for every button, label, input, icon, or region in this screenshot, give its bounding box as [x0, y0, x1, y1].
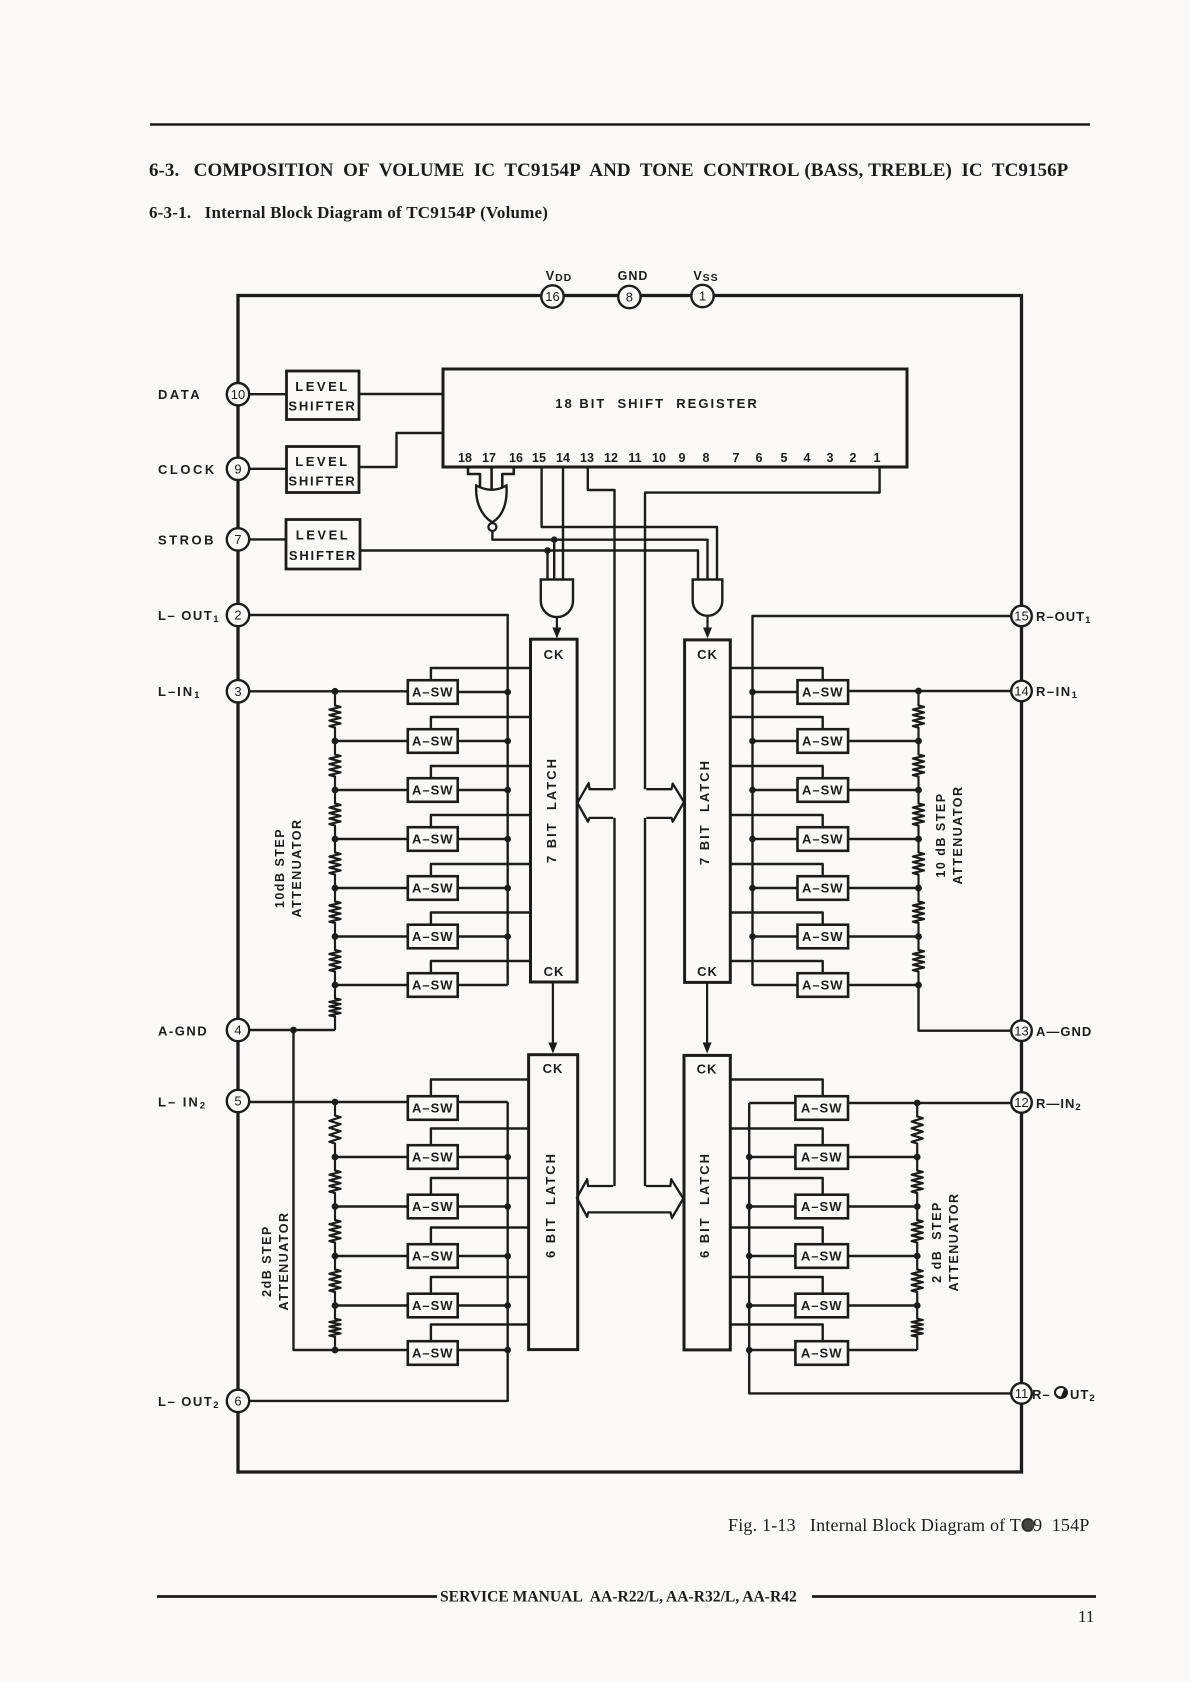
wire G1 output to AND gates (clock line)	[492, 531, 707, 579]
svg-text:9: 9	[234, 461, 241, 476]
junction tap 3 upper-right	[915, 836, 922, 843]
resistor R22 (2dB lower-right)	[912, 1207, 923, 1257]
wire STROB U3 to AND gates	[360, 551, 698, 580]
svg-text:4: 4	[804, 451, 811, 465]
wire shift register bit16 to gate G1	[502, 467, 514, 487]
level shifter U3 (STROB)	[286, 520, 360, 570]
junction tap 4 upper-right	[915, 885, 922, 892]
svg-text:A–SW: A–SW	[802, 881, 844, 896]
wire U6 control bit 7 to A-SW upper-right	[730, 961, 822, 973]
junction tap 3 lower-right	[914, 1253, 921, 1260]
svg-text:CK: CK	[543, 1061, 564, 1076]
A-SW switch lower-right 1	[795, 1096, 848, 1120]
A-SW switch upper-left 5	[408, 876, 458, 900]
resistor R11 (10dB upper-right)	[913, 839, 924, 888]
svg-text:12: 12	[604, 451, 618, 465]
wire A-SW upper-left 3 output to bus	[458, 789, 508, 791]
resistor R10 (10dB upper-right)	[913, 790, 924, 839]
svg-text:A–SW: A–SW	[412, 1150, 454, 1165]
wire U8 control bit 6 to A-SW lower-right	[730, 1325, 822, 1342]
wire U6 control bit 2 to A-SW upper-right	[730, 717, 822, 729]
svg-text:A—GND: A—GND	[1036, 1024, 1092, 1039]
svg-text:2dB STEP: 2dB STEP	[260, 1225, 274, 1297]
wire L-OUT1 pin2 to output bus	[249, 615, 508, 985]
svg-text:A–SW: A–SW	[412, 734, 454, 749]
junction tap 2 lower-left	[332, 1203, 339, 1210]
svg-text:A–SW: A–SW	[412, 832, 454, 847]
resistor R8 (10dB upper-right)	[913, 692, 924, 741]
svg-text:A–SW: A–SW	[802, 929, 844, 944]
resistor R24 (2dB lower-right)	[912, 1306, 923, 1351]
wire A-GND down to lower attenuator	[294, 1030, 408, 1350]
junction tap 5 upper-right	[915, 933, 922, 940]
svg-text:R–: R–	[1032, 1387, 1051, 1402]
wire G3 to right 7-bit latch CK	[703, 616, 712, 639]
wire A-SW lower-right 4 output to bus	[749, 1255, 795, 1257]
wire attenuator tap 4 to A-SW input (lower-right)	[848, 1304, 917, 1306]
svg-text:VSS: VSS	[693, 269, 718, 284]
wire node D1 lower segment	[613, 818, 615, 1186]
junction tap 5 upper-left	[332, 933, 339, 940]
wire R-OUT1 pin15 to output bus	[753, 616, 1011, 985]
resistor R4 (10dB upper-left)	[329, 839, 340, 888]
svg-text:A–SW: A–SW	[412, 783, 454, 798]
svg-text:6-3-1. Internal Block Diagra: 6-3-1. Internal Block Diagram of TC9154P…	[149, 203, 548, 222]
wire U5 control bit 7 to A-SW upper-left	[431, 961, 531, 973]
junction tap 2 upper-right	[915, 787, 922, 794]
wire L-IN1 pin3 to attenuator and A-SW	[249, 690, 408, 692]
footer rule and text	[157, 1589, 1096, 1606]
resistor R6 (10dB upper-left)	[329, 937, 340, 986]
AND gate G3 (right latch clock)	[693, 580, 723, 616]
svg-text:CK: CK	[544, 964, 565, 979]
wire U7 control bit 1 to A-SW lower-left	[431, 1080, 529, 1097]
wire attenuator tap 2 to A-SW input (upper-left)	[335, 789, 408, 791]
svg-text:16: 16	[509, 451, 523, 465]
svg-text:11: 11	[1015, 1386, 1029, 1401]
svg-text:5: 5	[234, 1094, 241, 1109]
wire U6 control bit 5 to A-SW upper-right	[730, 864, 822, 876]
svg-text:CK: CK	[544, 647, 565, 662]
wire U7 control bit 3 to A-SW lower-left	[431, 1178, 529, 1195]
wire U7 control bit 6 to A-SW lower-left	[431, 1325, 529, 1342]
svg-text:10dB STEP: 10dB STEP	[273, 828, 287, 908]
svg-text:2 dB STEP: 2 dB STEP	[930, 1201, 944, 1283]
svg-text:6 BIT LATCH: 6 BIT LATCH	[697, 1152, 712, 1258]
resistor R1 (10dB upper-left)	[329, 692, 340, 741]
wire U5 control bit 6 to A-SW upper-left	[431, 913, 531, 925]
svg-text:A–SW: A–SW	[801, 1249, 843, 1264]
data bus arrow lower (between 6-bit latches)	[577, 1179, 683, 1218]
svg-text:10: 10	[652, 451, 666, 465]
junction output bus lower-left 4	[504, 1253, 511, 1260]
junction R-IN1 at attenuator top	[915, 688, 922, 695]
svg-text:A–SW: A–SW	[801, 1199, 843, 1214]
svg-text:A–SW: A–SW	[802, 832, 844, 847]
svg-text:VDD: VDD	[546, 269, 573, 284]
wire attenuator bottom to A-SW lower-right	[848, 1349, 917, 1351]
wire shift register bit15 to G3	[542, 467, 717, 580]
junction output bus upper-left 6	[504, 933, 511, 940]
junction output bus lower-left 6	[504, 1347, 511, 1354]
left 6-bit latch U7	[529, 1055, 578, 1350]
wire attenuator tap 3 to A-SW input (lower-right)	[848, 1255, 917, 1257]
resistor R16 (2dB lower-left)	[329, 1157, 340, 1207]
wire clock line branch to G2	[553, 540, 555, 580]
wire A-SW upper-right 3 output to bus	[753, 789, 798, 791]
svg-text:1: 1	[874, 451, 881, 465]
wire A-SW upper-left 6 output to bus	[458, 935, 508, 937]
A-SW switch lower-left 3	[408, 1195, 458, 1219]
pin 1 VSS	[691, 285, 713, 307]
junction output bus upper-left 1	[504, 689, 511, 696]
wire U5 control bit 1 to A-SW upper-left	[431, 668, 531, 680]
svg-text:LEVEL: LEVEL	[295, 454, 349, 469]
junction R-IN2 at attenuator top	[914, 1100, 921, 1107]
junction tap 1 lower-right	[914, 1154, 921, 1161]
svg-text:Fig. 1-13 Internal Block Dia: Fig. 1-13 Internal Block Diagram of TC9 …	[728, 1515, 1090, 1535]
label R-OUT2	[1032, 1386, 1096, 1404]
wire U5 control bit 3 to A-SW upper-left	[431, 766, 531, 778]
wire U7 control bit 4 to A-SW lower-left	[431, 1228, 529, 1245]
resistor R9 (10dB upper-right)	[913, 741, 924, 790]
A-SW switch upper-right 6	[798, 925, 849, 949]
junction tap 3 lower-left	[332, 1253, 339, 1260]
AND gate G2 (left latch clock)	[541, 580, 573, 618]
svg-text:L– OUT1: L– OUT1	[158, 608, 220, 625]
wire U5 control bit 5 to A-SW upper-left	[431, 864, 531, 876]
junction attenuator bottom lower-left	[332, 1347, 339, 1354]
svg-text:16: 16	[545, 289, 559, 304]
pin 14 R-IN1	[1011, 681, 1032, 702]
junction L-IN1 at attenuator top	[332, 688, 339, 695]
svg-text:SHIFTER: SHIFTER	[289, 548, 357, 563]
svg-text:7: 7	[733, 451, 740, 465]
wire attenuator tap 5 to A-SW input (upper-left)	[335, 935, 408, 937]
svg-text:ATTENUATOR: ATTENUATOR	[951, 785, 965, 884]
junction output bus lower-right 6	[746, 1347, 753, 1354]
svg-text:15: 15	[532, 451, 546, 465]
svg-text:A–SW: A–SW	[412, 929, 454, 944]
svg-text:A–SW: A–SW	[801, 1346, 843, 1361]
svg-text:R–OUT1: R–OUT1	[1036, 609, 1091, 626]
wire attenuator tap 3 to A-SW input (upper-left)	[335, 838, 408, 840]
level shifter U1 (DATA)	[287, 371, 360, 420]
wire U7 control bit 5 to A-SW lower-left	[431, 1277, 529, 1294]
wire shift register bit14 to G2	[562, 467, 564, 580]
svg-text:A–SW: A–SW	[801, 1150, 843, 1165]
wire A-SW lower-right 6 output to bus	[749, 1349, 795, 1351]
wire shift register bit13 down to latches (node D1)	[588, 467, 615, 789]
resistor R23 (2dB lower-right)	[912, 1256, 923, 1306]
svg-text:ATTENUATOR: ATTENUATOR	[947, 1192, 961, 1291]
18 bit shift register U4	[443, 369, 907, 467]
junction on STROB line	[544, 547, 551, 554]
resistor R21 (2dB lower-right)	[912, 1157, 923, 1207]
A-SW switch lower-right 5	[795, 1294, 848, 1318]
svg-text:GND: GND	[618, 269, 649, 283]
wire attenuator tap 1 to A-SW input (upper-left)	[335, 740, 408, 742]
wire node D2 lower segment	[644, 818, 646, 1186]
A-SW switch lower-right 4	[795, 1244, 848, 1268]
junction output bus lower-left 5	[504, 1302, 511, 1309]
wire attenuator tap 2 to A-SW input (upper-right)	[848, 789, 918, 791]
svg-text:A–SW: A–SW	[412, 685, 454, 700]
wire A-SW upper-right 5 output to bus	[753, 887, 798, 889]
vertical label 10dB STEP ATTENUATOR left	[273, 818, 304, 917]
wire A-SW upper-left 5 output to bus	[458, 887, 508, 889]
A-SW switch upper-left 6	[408, 925, 458, 949]
wire shift register bit17 to gate G1	[490, 467, 493, 493]
wire attenuator tap 4 to A-SW input (upper-left)	[335, 887, 408, 889]
resistor R12 (10dB upper-right)	[913, 888, 924, 937]
page top rule	[150, 123, 1090, 126]
junction on clock line	[551, 536, 558, 543]
svg-text:CK: CK	[697, 1062, 718, 1077]
IC boundary box	[238, 296, 1022, 1473]
resistor R2 (10dB upper-left)	[329, 741, 340, 790]
svg-text:12: 12	[1014, 1095, 1028, 1110]
svg-text:6: 6	[234, 1394, 241, 1409]
level shifter U2 (CLOCK)	[287, 447, 360, 493]
junction output bus lower-right 5	[746, 1302, 753, 1309]
A-SW switch lower-right 3	[795, 1195, 848, 1219]
junction tap 6 upper-right	[915, 982, 922, 989]
resistor R5 (10dB upper-left)	[329, 888, 340, 937]
svg-text:7 BIT LATCH: 7 BIT LATCH	[697, 759, 712, 865]
svg-text:L– IN2: L– IN2	[158, 1095, 207, 1112]
resistor R3 (10dB upper-left)	[329, 790, 340, 839]
A-SW switch upper-left 3	[408, 778, 458, 802]
pin 12 R-IN2	[1011, 1092, 1032, 1113]
junction tap 6 upper-left	[332, 982, 339, 989]
A-SW switch lower-right 2	[795, 1145, 848, 1169]
A-SW switch lower-left 5	[408, 1294, 458, 1318]
pin 7 STROB	[227, 528, 249, 550]
resistor R15 (2dB lower-left)	[329, 1102, 340, 1157]
wire A-SW lower-right 2 output to bus	[749, 1156, 795, 1158]
junction tap 4 lower-right	[914, 1302, 921, 1309]
data bus arrow upper (between 7-bit latches)	[577, 783, 684, 822]
wire CLOCK pin9 to level shifter U2	[249, 468, 286, 470]
wire L-OUT2 pin6 to output bus	[249, 1102, 508, 1401]
A-SW switch upper-left 4	[408, 827, 458, 851]
wire U5 control bit 2 to A-SW upper-left	[431, 717, 531, 729]
resistor R17 (2dB lower-left)	[329, 1207, 340, 1257]
svg-text:A-GND: A-GND	[158, 1024, 208, 1039]
svg-text:6: 6	[756, 451, 763, 465]
wire attenuator tap 2 to A-SW input (lower-left)	[335, 1205, 408, 1207]
svg-text:10: 10	[231, 387, 245, 402]
junction output bus lower-right 4	[746, 1253, 753, 1260]
wire attenuator tap 1 to A-SW input (lower-left)	[335, 1156, 408, 1158]
wire A-SW lower-left 1 output to bus	[458, 1101, 508, 1103]
wire L-IN2 pin5 to attenuator and A-SW	[249, 1101, 408, 1103]
left 7-bit latch U5	[531, 639, 578, 982]
junction output bus upper-left 4	[504, 836, 511, 843]
junction output bus upper-right 3	[749, 787, 756, 794]
svg-text:A–SW: A–SW	[412, 1199, 454, 1214]
wire attenuator tap 6 to A-SW input (upper-right)	[848, 984, 918, 986]
wire A-SW upper-left 4 output to bus	[458, 838, 508, 840]
wire attenuator tap 2 to A-SW input (lower-right)	[848, 1205, 917, 1207]
wire U7 control bit 2 to A-SW lower-left	[431, 1129, 529, 1146]
pin 15 R-OUT1	[1011, 606, 1032, 627]
svg-text:7 BIT LATCH: 7 BIT LATCH	[544, 757, 559, 863]
wire G2 to left 7-bit latch CK	[552, 617, 561, 638]
pin 4 A-GND	[227, 1019, 249, 1041]
svg-text:18: 18	[458, 451, 472, 465]
wire attenuator tap 6 to A-SW input (upper-left)	[335, 984, 408, 986]
wire A-SW lower-right 3 output to bus	[749, 1205, 795, 1207]
wire A-GND pin4 to attenuator bottoms	[249, 1029, 335, 1031]
pin 9 CLOCK	[227, 458, 249, 480]
svg-text:1: 1	[699, 289, 706, 304]
junction output bus upper-left 2	[504, 738, 511, 745]
resistor R20 (2dB lower-right)	[912, 1103, 923, 1157]
svg-text:13: 13	[1014, 1023, 1028, 1038]
shift register output pin numbers	[458, 451, 880, 465]
pin 5 L-IN2	[227, 1090, 249, 1112]
junction output bus upper-right 1	[749, 689, 756, 696]
pin 10 DATA	[227, 383, 249, 405]
wire A-SW upper-right 6 output to bus	[753, 935, 798, 937]
A-SW switch lower-left 4	[408, 1244, 458, 1268]
svg-text:A–SW: A–SW	[802, 783, 844, 798]
A-SW switch upper-right 3	[798, 778, 849, 802]
svg-text:A–SW: A–SW	[412, 1298, 454, 1313]
wire U8 control bit 3 to A-SW lower-right	[730, 1178, 822, 1195]
svg-text:4: 4	[234, 1023, 241, 1038]
wire A-SW lower-left 3 output to bus	[458, 1205, 508, 1207]
wire A-SW upper-left 7 output to bus	[458, 984, 508, 986]
vertical label 2dB STEP ATTENUATOR left	[260, 1211, 291, 1310]
svg-text:18 BIT SHIFT REGISTER: 18 BIT SHIFT REGISTER	[555, 396, 758, 411]
junction output bus upper-right 2	[749, 738, 756, 745]
junction tap 4 lower-left	[332, 1302, 339, 1309]
wire STROB branch to G2	[546, 551, 548, 580]
junction tap 1 upper-right	[915, 738, 922, 745]
wire U1 to shift register	[359, 393, 443, 395]
svg-text:CK: CK	[697, 647, 718, 662]
wire R-OUT2 pin11 to output bus	[749, 1103, 1010, 1393]
A-SW switch upper-right 1	[798, 680, 849, 704]
wire U8 control bit 1 to A-SW lower-right	[730, 1080, 822, 1097]
wire A-SW lower-right 5 output to bus	[749, 1304, 795, 1306]
wire attenuator tap 3 to A-SW input (upper-right)	[848, 838, 918, 840]
wire U6 control bit 3 to A-SW upper-right	[730, 766, 822, 778]
wire U6 control bit 6 to A-SW upper-right	[730, 913, 822, 925]
wire R-IN1 pin14 to attenuator and A-SW	[848, 690, 1010, 692]
A-SW switch upper-right 7	[798, 973, 849, 997]
junction output bus upper-right 4	[749, 836, 756, 843]
svg-text:SERVICE MANUAL AA-R22/L, AA-R: SERVICE MANUAL AA-R22/L, AA-R32/L, AA-R4…	[440, 1589, 797, 1606]
svg-text:CK: CK	[697, 964, 718, 979]
wire A-SW lower-left 6 output to bus	[458, 1349, 508, 1351]
wire A-SW upper-right 7 output to bus	[753, 984, 798, 986]
A-SW switch lower-left 1	[408, 1096, 458, 1120]
svg-text:5: 5	[781, 451, 788, 465]
NOR gate G1	[476, 486, 506, 532]
svg-text:2: 2	[850, 451, 857, 465]
wire U6 control bit 4 to A-SW upper-right	[730, 815, 822, 827]
wire A-SW upper-right 1 output to bus	[753, 691, 798, 693]
svg-text:10 dB STEP: 10 dB STEP	[934, 792, 948, 877]
svg-text:SHIFTER: SHIFTER	[288, 474, 356, 489]
wire U6 CK to right 6-bit latch	[703, 982, 712, 1053]
svg-text:A–SW: A–SW	[412, 881, 454, 896]
svg-text:11: 11	[628, 451, 641, 465]
svg-text:6 BIT LATCH: 6 BIT LATCH	[543, 1152, 558, 1258]
svg-text:DATA: DATA	[158, 387, 202, 402]
junction tap 3 upper-left	[332, 836, 339, 843]
svg-text:7: 7	[234, 532, 241, 547]
junction output bus upper-right 5	[749, 885, 756, 892]
A-SW switch upper-left 7	[408, 973, 458, 997]
wire attenuator bottom to A-GND pin13	[919, 985, 1011, 1031]
junction output bus lower-left 3	[504, 1203, 511, 1210]
wire A-SW lower-left 5 output to bus	[458, 1304, 508, 1306]
wire U6 control bit 1 to A-SW upper-right	[730, 668, 822, 680]
A-SW switch upper-left 1	[408, 680, 458, 704]
A-SW switch upper-right 4	[798, 827, 849, 851]
wire DATA pin10 to level shifter U1	[249, 393, 286, 395]
svg-text:LEVEL: LEVEL	[296, 528, 350, 543]
A-SW switch lower-left 6	[408, 1341, 458, 1365]
resistor R13 (10dB upper-right)	[913, 937, 924, 986]
junction tap 4 upper-left	[332, 885, 339, 892]
wire U5 CK to left 6-bit latch	[548, 982, 557, 1054]
wire attenuator tap 5 to A-SW input (upper-right)	[848, 935, 918, 937]
wire attenuator tap 3 to A-SW input (lower-left)	[335, 1255, 408, 1257]
svg-text:A–SW: A–SW	[412, 1346, 454, 1361]
svg-text:17: 17	[482, 451, 496, 465]
junction tap 2 upper-left	[332, 787, 339, 794]
svg-text:ATTENUATOR: ATTENUATOR	[277, 1211, 291, 1310]
junction tap 2 lower-right	[914, 1203, 921, 1210]
vertical label 2dB STEP ATTENUATOR right	[930, 1192, 961, 1291]
wire shift register bit1 down to latches (node D2)	[645, 467, 880, 789]
wire attenuator tap 1 to A-SW input (upper-right)	[848, 740, 918, 742]
wire A-SW lower-right 1 output to bus	[749, 1102, 795, 1104]
junction output bus lower-left 2	[504, 1154, 511, 1161]
wire STROB pin7 to level shifter U3	[249, 538, 286, 540]
pin 3 L-IN1	[227, 680, 249, 702]
svg-text:A–SW: A–SW	[802, 685, 844, 700]
svg-text:13: 13	[580, 451, 594, 465]
resistor R7 (10dB upper-left)	[329, 985, 340, 1030]
wire A-SW upper-right 2 output to bus	[753, 740, 798, 742]
pin 8 GND	[618, 286, 640, 308]
junction output bus upper-right 6	[749, 933, 756, 940]
A-SW switch lower-left 2	[408, 1145, 458, 1169]
svg-text:3: 3	[234, 684, 241, 699]
wire A-SW lower-left 4 output to bus	[458, 1255, 508, 1257]
svg-text:8: 8	[626, 290, 633, 305]
svg-text:LEVEL: LEVEL	[295, 379, 349, 394]
junction output bus lower-right 3	[746, 1203, 753, 1210]
pin 6 L-OUT2	[227, 1390, 249, 1412]
svg-text:A–SW: A–SW	[801, 1298, 843, 1313]
right 6-bit latch U8	[684, 1055, 730, 1350]
pin 16 VDD	[541, 285, 563, 307]
svg-text:A–SW: A–SW	[801, 1101, 843, 1116]
svg-text:3: 3	[827, 451, 834, 465]
junction output bus lower-right 2	[746, 1154, 753, 1161]
svg-text:L– OUT2: L– OUT2	[158, 1394, 220, 1411]
junction output bus upper-left 5	[504, 885, 511, 892]
A-SW switch upper-right 2	[798, 729, 849, 753]
